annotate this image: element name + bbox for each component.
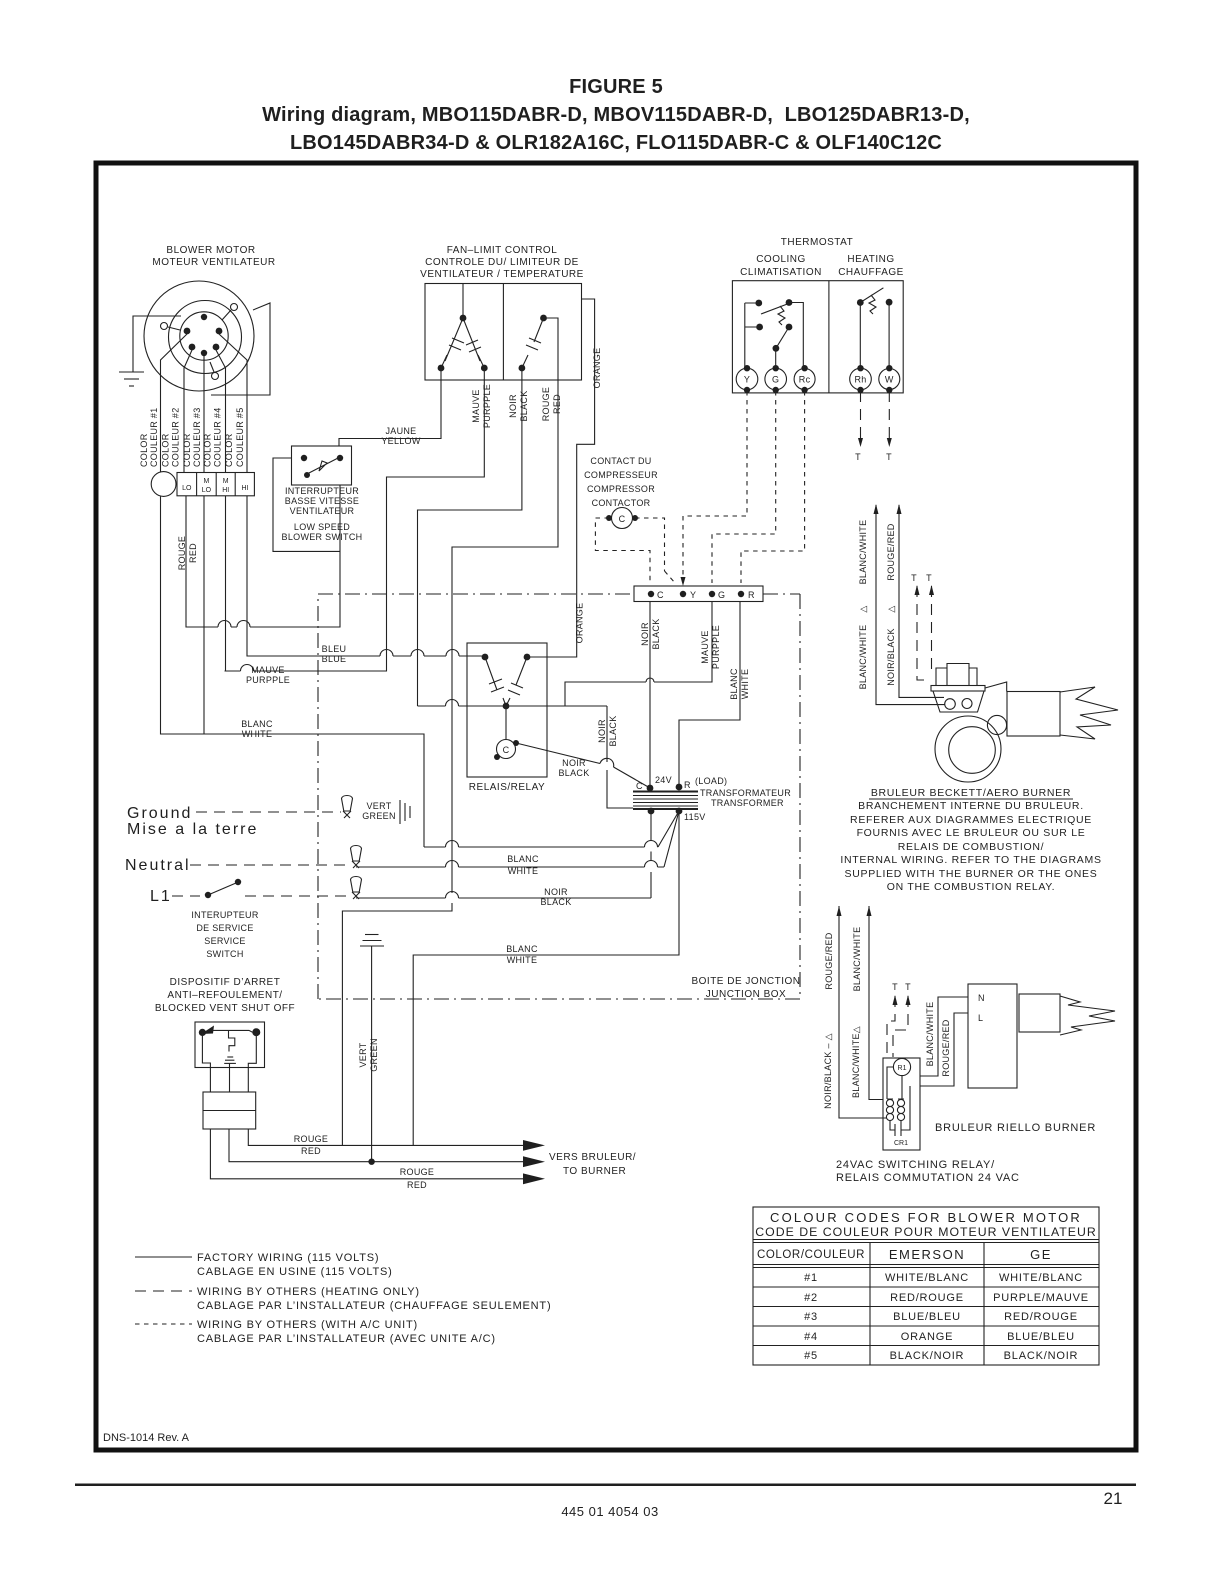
svg-text:ANTI–REFOULEMENT/: ANTI–REFOULEMENT/ xyxy=(167,990,282,1001)
svg-text:BLEU: BLEU xyxy=(322,644,347,654)
svg-text:COULEUR #4: COULEUR #4 xyxy=(213,407,223,467)
svg-text:GE: GE xyxy=(1030,1247,1052,1262)
svg-text:T: T xyxy=(911,573,917,583)
svg-text:REFERER AUX DIAGRAMMES ELECTRI: REFERER AUX DIAGRAMMES ELECTRIQUE xyxy=(850,814,1092,826)
svg-text:GREEN: GREEN xyxy=(369,1038,379,1072)
svg-text:BASSE VITESSE: BASSE VITESSE xyxy=(285,496,359,506)
svg-text:ON THE COMBUSTION RELAY.: ON THE COMBUSTION RELAY. xyxy=(887,881,1056,893)
svg-text:CABLAGE PAR L’INSTALLATEUR (CH: CABLAGE PAR L’INSTALLATEUR (CHAUFFAGE SE… xyxy=(197,1300,551,1312)
svg-text:COMPRESSOR: COMPRESSOR xyxy=(587,484,655,494)
svg-text:WIRING BY OTHERS (WITH A/C UNI: WIRING BY OTHERS (WITH A/C UNIT) xyxy=(197,1319,418,1331)
svg-text:EMERSON: EMERSON xyxy=(889,1247,965,1262)
svg-text:ORANGE: ORANGE xyxy=(901,1331,953,1343)
svg-text:CODE DE COULEUR POUR MOTEUR VE: CODE DE COULEUR POUR MOTEUR VENTILATEUR xyxy=(755,1225,1096,1239)
svg-text:SWITCH: SWITCH xyxy=(206,949,243,959)
svg-text:MAUVE: MAUVE xyxy=(251,665,285,675)
svg-text:CONTROLE DU/ LIMITEUR DE: CONTROLE DU/ LIMITEUR DE xyxy=(425,257,579,268)
svg-text:T: T xyxy=(905,982,911,992)
svg-text:VERT: VERT xyxy=(366,801,391,811)
svg-text:NOIR: NOIR xyxy=(508,394,518,418)
svg-text:COMPRESSEUR: COMPRESSEUR xyxy=(584,470,658,480)
svg-text:RED/ROUGE: RED/ROUGE xyxy=(890,1292,964,1304)
svg-text:NOIR: NOIR xyxy=(544,887,568,897)
svg-text:Ground: Ground xyxy=(127,805,192,822)
svg-text:RELAIS/RELAY: RELAIS/RELAY xyxy=(469,782,545,793)
svg-text:COLOR: COLOR xyxy=(139,433,149,467)
svg-text:TRANSFORMER: TRANSFORMER xyxy=(711,798,784,808)
svg-text:TO BURNER: TO BURNER xyxy=(563,1166,626,1177)
svg-text:Rh: Rh xyxy=(854,375,866,385)
svg-text:DISPOSITIF D’ARRET: DISPOSITIF D’ARRET xyxy=(170,977,281,988)
svg-text:COOLING: COOLING xyxy=(756,254,806,265)
svg-text:445 01 4054 03: 445 01 4054 03 xyxy=(561,1504,658,1519)
svg-text:△: △ xyxy=(858,605,868,612)
svg-text:BLANC/WHITE△: BLANC/WHITE△ xyxy=(851,1026,861,1098)
svg-text:(LOAD): (LOAD) xyxy=(695,776,727,786)
svg-text:COLOUR CODES FOR BLOWER MOTOR: COLOUR CODES FOR BLOWER MOTOR xyxy=(770,1210,1082,1225)
svg-text:21: 21 xyxy=(1104,1489,1123,1508)
svg-text:#5: #5 xyxy=(804,1350,818,1362)
svg-text:CABLAGE EN USINE (115 VOLTS): CABLAGE EN USINE (115 VOLTS) xyxy=(197,1266,393,1278)
svg-text:COULEUR #5: COULEUR #5 xyxy=(235,407,245,467)
svg-text:YELLOW: YELLOW xyxy=(381,436,421,446)
svg-text:PURPPLE: PURPPLE xyxy=(246,675,290,685)
svg-text:24V: 24V xyxy=(655,775,672,785)
svg-text:RED: RED xyxy=(188,543,198,563)
svg-text:Mise a la terre: Mise a la terre xyxy=(127,821,258,838)
svg-text:CLIMATISATION: CLIMATISATION xyxy=(740,267,822,278)
svg-text:RED: RED xyxy=(301,1146,321,1156)
svg-text:ROUGE/RED: ROUGE/RED xyxy=(941,1019,951,1076)
svg-text:NOIR: NOIR xyxy=(597,719,607,743)
svg-text:BLACK/NOIR: BLACK/NOIR xyxy=(890,1350,965,1362)
svg-text:BLANC: BLANC xyxy=(507,854,539,864)
svg-text:RELAIS DE COMBUSTION/: RELAIS DE COMBUSTION/ xyxy=(898,841,1045,853)
svg-text:LBO145DABR34-D & OLR182A16C, F: LBO145DABR34-D & OLR182A16C, FLO115DABR-… xyxy=(290,132,942,154)
svg-text:Neutral: Neutral xyxy=(125,857,191,874)
svg-text:BLANC: BLANC xyxy=(729,668,739,700)
svg-text:WHITE/BLANC: WHITE/BLANC xyxy=(885,1272,969,1284)
svg-text:NOIR/BLACK – △: NOIR/BLACK – △ xyxy=(823,1033,833,1109)
svg-text:T: T xyxy=(926,573,932,583)
svg-text:WHITE/BLANC: WHITE/BLANC xyxy=(999,1272,1083,1284)
svg-text:LO: LO xyxy=(202,487,212,494)
svg-text:MAUVE: MAUVE xyxy=(471,389,481,423)
svg-text:FOURNIS AVEC LE BRULEUR OU SUR: FOURNIS AVEC LE BRULEUR OU SUR LE xyxy=(857,827,1086,839)
svg-text:G: G xyxy=(718,590,725,600)
svg-text:M: M xyxy=(203,478,209,485)
svg-text:COLOR: COLOR xyxy=(224,433,234,467)
svg-text:WHITE: WHITE xyxy=(507,955,538,965)
svg-text:FACTORY WIRING (115 VOLTS): FACTORY WIRING (115 VOLTS) xyxy=(197,1252,379,1264)
svg-text:CABLAGE PAR L’INSTALLATEUR (AV: CABLAGE PAR L’INSTALLATEUR (AVEC UNITE A… xyxy=(197,1333,496,1345)
svg-text:R: R xyxy=(684,780,691,790)
svg-text:N: N xyxy=(978,993,985,1003)
svg-text:BLACK/NOIR: BLACK/NOIR xyxy=(1004,1350,1079,1362)
svg-text:COULEUR #3: COULEUR #3 xyxy=(192,407,202,467)
svg-text:FAN–LIMIT CONTROL: FAN–LIMIT CONTROL xyxy=(447,245,558,256)
svg-text:COLOR: COLOR xyxy=(203,433,213,467)
svg-text:NOIR: NOIR xyxy=(562,758,586,768)
svg-text:LOW SPEED: LOW SPEED xyxy=(294,522,350,532)
svg-text:THERMOSTAT: THERMOSTAT xyxy=(781,237,853,248)
svg-text:INTERNAL WIRING. REFER TO THE: INTERNAL WIRING. REFER TO THE DIAGRAMS xyxy=(840,854,1101,866)
svg-text:VERT: VERT xyxy=(358,1042,368,1067)
svg-text:ROUGE/RED: ROUGE/RED xyxy=(824,932,834,989)
svg-text:INTERUPTEUR: INTERUPTEUR xyxy=(191,910,259,920)
svg-text:COULEUR #2: COULEUR #2 xyxy=(171,407,181,467)
svg-text:TRANSFORMATEUR: TRANSFORMATEUR xyxy=(700,788,791,798)
svg-text:L: L xyxy=(978,1013,983,1023)
svg-text:Y: Y xyxy=(744,375,750,385)
svg-text:CONTACTOR: CONTACTOR xyxy=(592,498,651,508)
svg-text:BLACK: BLACK xyxy=(651,618,661,649)
svg-text:RELAIS COMMUTATION 24 VAC: RELAIS COMMUTATION 24 VAC xyxy=(836,1172,1020,1184)
svg-text:BRANCHEMENT INTERNE DU BRULEUR: BRANCHEMENT INTERNE DU BRULEUR. xyxy=(858,800,1084,812)
svg-text:CR1: CR1 xyxy=(894,1140,908,1147)
svg-text:BLACK: BLACK xyxy=(608,715,618,746)
svg-text:JAUNE: JAUNE xyxy=(385,426,416,436)
svg-text:VERS BRULEUR/: VERS BRULEUR/ xyxy=(549,1152,636,1163)
svg-text:T: T xyxy=(886,452,892,462)
svg-text:ROUGE: ROUGE xyxy=(400,1167,435,1177)
svg-text:INTERRUPTEUR: INTERRUPTEUR xyxy=(285,486,359,496)
svg-text:FIGURE 5: FIGURE 5 xyxy=(569,76,663,98)
svg-text:VENTILATEUR / TEMPERATURE: VENTILATEUR / TEMPERATURE xyxy=(420,269,584,280)
svg-text:R1: R1 xyxy=(898,1065,907,1072)
svg-text:JUNCTION BOX: JUNCTION BOX xyxy=(706,989,786,1000)
svg-text:MOTEUR VENTILATEUR: MOTEUR VENTILATEUR xyxy=(152,257,275,268)
svg-text:RED: RED xyxy=(552,394,562,414)
svg-text:HEATING: HEATING xyxy=(847,254,894,265)
svg-text:W: W xyxy=(885,375,894,385)
svg-text:MAUVE: MAUVE xyxy=(700,630,710,664)
svg-text:SUPPLIED WITH THE BURNER OR TH: SUPPLIED WITH THE BURNER OR THE ONES xyxy=(845,868,1098,880)
svg-text:C: C xyxy=(619,514,626,524)
svg-text:BOITE DE JONCTION: BOITE DE JONCTION xyxy=(691,976,800,987)
svg-text:ROUGE: ROUGE xyxy=(294,1134,329,1144)
svg-text:BLUE/BLEU: BLUE/BLEU xyxy=(893,1311,961,1323)
svg-text:NOIR: NOIR xyxy=(640,622,650,646)
svg-text:24VAC SWITCHING RELAY/: 24VAC SWITCHING RELAY/ xyxy=(836,1159,995,1171)
svg-text:BLANC: BLANC xyxy=(241,719,273,729)
svg-text:BLANC: BLANC xyxy=(506,944,538,954)
svg-text:NOIR/BLACK: NOIR/BLACK xyxy=(886,628,896,686)
svg-text:PURPPLE: PURPPLE xyxy=(482,384,492,428)
svg-text:ORANGE: ORANGE xyxy=(592,348,602,389)
svg-text:BLACK: BLACK xyxy=(558,768,589,778)
svg-text:G: G xyxy=(772,375,779,385)
svg-text:BLOWER MOTOR: BLOWER MOTOR xyxy=(166,245,255,256)
svg-text:HI: HI xyxy=(222,487,229,494)
svg-text:BRULEUR RIELLO BURNER: BRULEUR RIELLO BURNER xyxy=(935,1122,1096,1134)
svg-text:T: T xyxy=(855,452,861,462)
svg-text:BRULEUR BECKETT/AERO BURNER: BRULEUR BECKETT/AERO BURNER xyxy=(871,787,1071,799)
svg-text:BLANC/WHITE: BLANC/WHITE xyxy=(852,927,862,992)
svg-text:VENTILATEUR: VENTILATEUR xyxy=(290,506,355,516)
svg-text:ROUGE/RED: ROUGE/RED xyxy=(886,523,896,580)
svg-text:RED/ROUGE: RED/ROUGE xyxy=(1004,1311,1078,1323)
svg-text:CHAUFFAGE: CHAUFFAGE xyxy=(838,267,904,278)
svg-text:#3: #3 xyxy=(804,1311,818,1323)
svg-text:DNS-1014 Rev. A: DNS-1014 Rev. A xyxy=(103,1432,190,1444)
svg-text:BLUE: BLUE xyxy=(322,654,347,664)
svg-text:CONTACT DU: CONTACT DU xyxy=(590,456,651,466)
svg-text:GREEN: GREEN xyxy=(362,811,396,821)
svg-text:ORANGE: ORANGE xyxy=(575,603,585,644)
svg-text:SERVICE: SERVICE xyxy=(204,936,245,946)
svg-text:BLANC/WHITE: BLANC/WHITE xyxy=(858,520,868,585)
svg-text:R: R xyxy=(748,590,755,600)
svg-text:C: C xyxy=(503,745,510,755)
svg-text:COLOR: COLOR xyxy=(161,433,171,467)
svg-text:C: C xyxy=(636,781,643,791)
svg-text:#1: #1 xyxy=(804,1272,818,1284)
svg-text:HI: HI xyxy=(242,485,249,492)
svg-text:BLOCKED VENT SHUT OFF: BLOCKED VENT SHUT OFF xyxy=(155,1003,295,1014)
svg-text:BLOWER SWITCH: BLOWER SWITCH xyxy=(282,532,363,542)
svg-text:COLOR/COULEUR: COLOR/COULEUR xyxy=(757,1249,865,1261)
svg-text:DE SERVICE: DE SERVICE xyxy=(196,923,253,933)
svg-text:△: △ xyxy=(886,605,896,612)
svg-text:C: C xyxy=(657,590,664,600)
svg-text:L1: L1 xyxy=(150,888,172,905)
svg-text:Rc: Rc xyxy=(799,375,811,385)
svg-text:COULEUR #1: COULEUR #1 xyxy=(149,407,159,467)
svg-text:115V: 115V xyxy=(684,812,706,822)
svg-text:RED: RED xyxy=(407,1180,427,1190)
svg-text:#2: #2 xyxy=(804,1292,818,1304)
svg-text:LO: LO xyxy=(182,485,192,492)
svg-text:BLANC/WHITE: BLANC/WHITE xyxy=(925,1002,935,1067)
svg-text:Wiring diagram, MBO115DABR-D,: Wiring diagram, MBO115DABR-D, MBOV115DAB… xyxy=(262,104,970,126)
svg-text:WHITE: WHITE xyxy=(242,729,273,739)
svg-text:T: T xyxy=(892,982,898,992)
svg-text:Y: Y xyxy=(690,590,696,600)
svg-text:ROUGE: ROUGE xyxy=(541,387,551,422)
svg-text:BLACK: BLACK xyxy=(519,390,529,421)
svg-text:COLOR: COLOR xyxy=(182,433,192,467)
svg-text:#4: #4 xyxy=(804,1331,818,1343)
svg-text:BLANC/WHITE: BLANC/WHITE xyxy=(858,625,868,690)
svg-text:M: M xyxy=(223,478,229,485)
svg-text:BLUE/BLEU: BLUE/BLEU xyxy=(1007,1331,1075,1343)
svg-text:PURPLE/MAUVE: PURPLE/MAUVE xyxy=(993,1292,1089,1304)
svg-text:WHITE: WHITE xyxy=(740,669,750,700)
svg-text:WIRING BY OTHERS (HEATING ONLY: WIRING BY OTHERS (HEATING ONLY) xyxy=(197,1286,420,1298)
